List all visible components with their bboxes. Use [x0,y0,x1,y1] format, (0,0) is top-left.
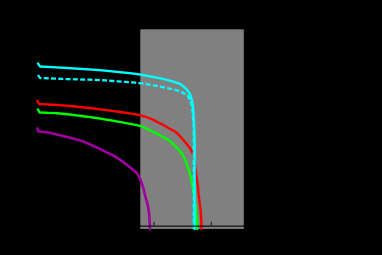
red curve [38,101,202,229]
cyan solid curve [38,64,195,230]
gray shaded band (axvspan) [140,29,244,229]
x-axis spine (semi-transparent black, visible over gray band) [38,225,246,227]
tick at x=211.3 [210,222,212,226]
cyan dashed curve [38,75,194,229]
purple curve [38,129,150,230]
green curve [38,110,197,230]
tick at x=154 [153,222,155,226]
